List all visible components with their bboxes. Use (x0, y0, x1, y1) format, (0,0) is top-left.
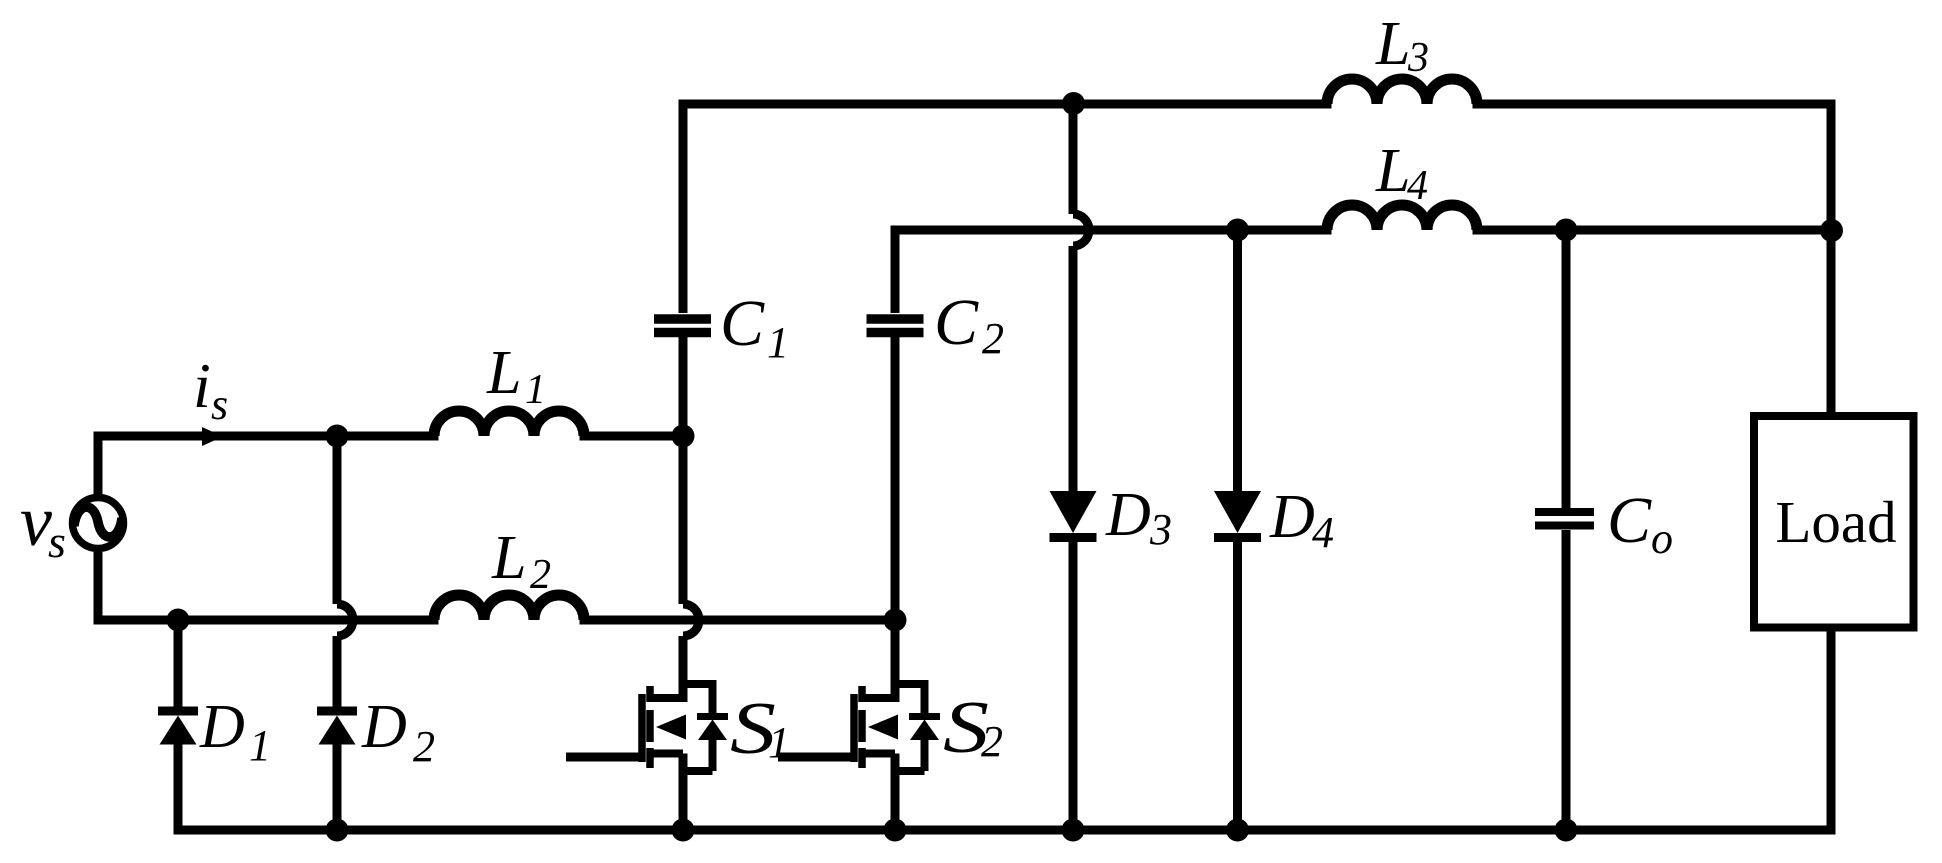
svg-text:s: s (211, 380, 228, 429)
svg-text:3: 3 (1149, 505, 1172, 554)
label L3 (1375, 10, 1429, 81)
svg-text:D: D (1269, 483, 1315, 551)
svg-text:L: L (486, 339, 521, 407)
junction node bottom-D2 (326, 819, 349, 842)
current arrow is (202, 427, 223, 446)
diode D4 (1214, 491, 1261, 538)
svg-text:1: 1 (767, 318, 789, 367)
label L2 (491, 524, 551, 598)
svg-text:2: 2 (982, 314, 1004, 363)
svg-text:L: L (1375, 10, 1410, 78)
label D1 (199, 693, 271, 770)
capacitor C2 (867, 319, 924, 333)
wire D4 branch upper (1233, 230, 1242, 492)
label S1 (730, 688, 790, 770)
wire Load top lead (1827, 230, 1836, 412)
junction node top-D3 (1062, 92, 1085, 115)
wire D4 lower lead (1233, 541, 1242, 830)
capacitor Co (1535, 512, 1594, 526)
transistor S1 (566, 684, 728, 830)
wire S1 drain lead (679, 636, 688, 702)
wire D3 branch upper (1069, 104, 1078, 214)
junction node vs-D1 (167, 609, 190, 632)
wire bottom rail (178, 631, 1831, 830)
svg-text:D: D (199, 693, 245, 761)
svg-text:2: 2 (981, 717, 1003, 766)
inductor L2 (434, 595, 584, 620)
inductor L3 (1327, 79, 1477, 104)
svg-text:D: D (361, 693, 407, 761)
label vs (20, 481, 66, 567)
label L4 (1375, 137, 1428, 209)
svg-text:4: 4 (1407, 163, 1428, 209)
capacitor C1 (654, 319, 711, 333)
label C2 (934, 286, 1004, 363)
transistor S2 (778, 684, 940, 830)
svg-text:s: s (48, 516, 66, 567)
diode D1 (158, 711, 198, 745)
svg-text:4: 4 (1312, 508, 1334, 557)
wire L2 row from source bottom to C2/S2 node (98, 552, 895, 620)
diode D2 (317, 711, 357, 745)
wire mid rail with inductor L4 from C2 top corner to right riser (895, 205, 1831, 313)
inductor L4 (1327, 205, 1477, 230)
svg-text:o: o (1651, 514, 1673, 563)
label S2 (943, 687, 1003, 769)
wire hop S1 branch over L2 row (683, 604, 699, 636)
wire C2 to S2 vertical (891, 337, 900, 620)
svg-text:i: i (193, 350, 211, 421)
svg-text:2: 2 (413, 722, 435, 771)
load box (1754, 416, 1914, 628)
junction node bottom-S2 (884, 819, 907, 842)
junction node bottom-D3 (1062, 819, 1085, 842)
wire S2 drain lead (891, 620, 900, 702)
wire hop D2 branch over L2 row (337, 604, 353, 636)
label Co (1607, 484, 1673, 563)
wire D1 branch upper (174, 620, 183, 707)
label C1 (720, 287, 789, 367)
svg-text:L: L (1375, 137, 1410, 205)
label L1 (486, 339, 546, 413)
junction node mid-Co (1555, 219, 1578, 242)
wire C1 to S1 vertical (679, 337, 688, 604)
wire top rail with inductor L3 and right riser to Load (683, 79, 1831, 412)
diode D3 (1050, 491, 1097, 538)
junction node L2-C2-S2 (884, 609, 907, 632)
label D3 (1105, 481, 1172, 554)
junction node L1-D2 (326, 425, 349, 448)
svg-text:C: C (934, 286, 979, 359)
wire D3 lower lead (1069, 541, 1078, 830)
svg-text:1: 1 (768, 718, 790, 767)
svg-text:L: L (491, 524, 526, 592)
wire D2 lower lead (333, 744, 342, 830)
label D2 (361, 693, 435, 771)
svg-text:C: C (1607, 484, 1652, 557)
source vs circle (73, 498, 124, 549)
junction node bottom-Co (1555, 819, 1578, 842)
svg-text:3: 3 (1407, 35, 1429, 81)
junction node bottom-D4 (1226, 819, 1249, 842)
junction node bottom-S1 (672, 819, 695, 842)
wire D3 branch to diode (1069, 246, 1078, 492)
source vs sine symbol (74, 507, 122, 537)
junction node mid-D4 (1226, 219, 1249, 242)
svg-text:D: D (1105, 481, 1151, 549)
label D4 (1269, 483, 1334, 557)
svg-text:Load: Load (1775, 489, 1896, 555)
svg-text:1: 1 (249, 721, 271, 770)
wire L1 row from source top to C1 node (98, 411, 683, 494)
svg-text:C: C (720, 287, 765, 360)
wire hop D3 branch over mid rail (1073, 214, 1089, 246)
wire D2 branch upper (333, 436, 342, 604)
junction node L1-C1 (672, 425, 695, 448)
label is (193, 350, 228, 429)
junction node mid-load riser (1820, 219, 1843, 242)
svg-text:2: 2 (530, 552, 551, 598)
svg-text:1: 1 (525, 367, 546, 413)
wire D2 branch to diode (333, 636, 342, 707)
inductor L1 (434, 411, 584, 436)
wire Co upper lead (1562, 230, 1571, 508)
wire Co lower lead (1562, 530, 1571, 830)
